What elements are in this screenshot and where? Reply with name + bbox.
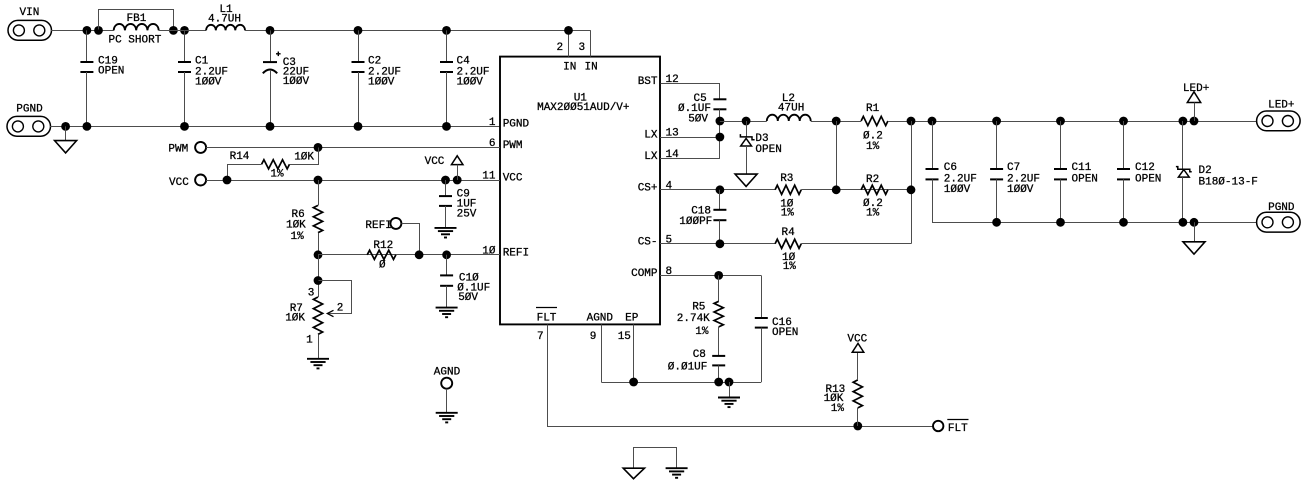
svg-text:2: 2 [556, 42, 563, 54]
wire FB1 to L1 [159, 30, 206, 32]
wire FLT pin 7 [548, 325, 934, 427]
pin 1 PGND label [489, 117, 530, 131]
node R7 top [314, 276, 323, 285]
pin 9 AGND label [587, 313, 614, 343]
node FLT-R13 [853, 422, 862, 431]
pin 12 BST label [638, 74, 679, 88]
resistor R13 [824, 352, 863, 426]
svg-text:1ØK: 1ØK [285, 313, 305, 325]
svg-text:1%: 1% [831, 403, 845, 415]
svg-text:Ø: Ø [379, 260, 386, 272]
svg-text:IN: IN [585, 61, 598, 73]
pin 2 IN [556, 30, 576, 73]
svg-text:C12: C12 [1135, 162, 1155, 174]
ground (AGND earth below C8) [718, 382, 740, 407]
svg-text:6: 6 [489, 138, 496, 150]
power flag LED+ [1183, 83, 1209, 121]
svg-text:1: 1 [306, 335, 313, 347]
svg-text:CS+: CS+ [638, 183, 658, 195]
svg-text:12: 12 [666, 74, 679, 86]
node REFI-R12 [415, 250, 424, 259]
wire bottom output rail [932, 222, 1257, 224]
node VCC-R6 [314, 176, 323, 185]
node C19 bottom [83, 122, 92, 131]
wire LX pins 13/14 [660, 121, 720, 159]
svg-text:C6: C6 [944, 162, 957, 174]
wire R6 to R7 [318, 255, 320, 297]
svg-text:R12: R12 [373, 240, 393, 252]
terminal PWM [168, 142, 206, 155]
node D2 bottom [1179, 218, 1188, 227]
ground (R7 earth) [307, 359, 329, 369]
op-amp U1 MAX20051AUD/V+ body [500, 57, 660, 325]
svg-text:VCC: VCC [503, 173, 523, 185]
ground (right PGND power symbol) [1183, 222, 1205, 254]
connector J LED+ (right) [1257, 100, 1301, 131]
node LX-D3 [742, 117, 751, 126]
svg-text:1%: 1% [783, 261, 797, 273]
svg-text:R3: R3 [780, 173, 793, 185]
pin 5 CS- label [638, 235, 672, 249]
node R6-REFI [314, 250, 323, 259]
node C12 top [1119, 117, 1128, 126]
terminal AGND [434, 367, 461, 413]
svg-text:FB1: FB1 [127, 13, 147, 25]
svg-text:VCC: VCC [169, 177, 189, 189]
ground (tie power symbol) [623, 468, 644, 479]
svg-text:2: 2 [337, 303, 344, 315]
svg-text:1ØØV: 1ØØV [944, 184, 971, 196]
resistor R12 [367, 240, 396, 272]
svg-text:LX: LX [644, 130, 658, 142]
wire L2-R3 vertical [836, 121, 838, 190]
power flag VCC (C9) [425, 156, 463, 180]
terminal FLT [933, 420, 969, 436]
pin 4 CS+ label [638, 181, 673, 195]
wire PGND rail / pin 1 [50, 126, 500, 128]
node C11 top [1056, 117, 1065, 126]
svg-text:PC SHORT: PC SHORT [109, 34, 162, 46]
node C1 top [180, 26, 189, 35]
svg-text:1ØØV: 1ØØV [283, 76, 310, 88]
inductor L2 [767, 93, 811, 121]
capacitor C18 [679, 190, 726, 244]
pin 8 COMP label [631, 266, 672, 280]
node COMP-R5 [714, 271, 723, 280]
capacitor C12 [1117, 121, 1161, 222]
power flag VCC (R13) [847, 333, 867, 352]
node LED+ flag [1190, 117, 1199, 126]
svg-text:9: 9 [590, 331, 597, 343]
svg-text:R14: R14 [230, 151, 250, 163]
svg-text:R5: R5 [692, 302, 705, 314]
node VCC-C9 [441, 176, 450, 185]
terminal VCC [169, 175, 206, 189]
svg-text:C1: C1 [195, 56, 209, 68]
svg-text:PGND: PGND [16, 104, 43, 116]
node D2 top [1179, 117, 1188, 126]
node EP [629, 378, 638, 387]
svg-text:1ØK: 1ØK [294, 152, 314, 164]
capacitor C7 [990, 121, 1040, 222]
svg-text:VCC: VCC [425, 156, 445, 168]
capacitor C4 [440, 30, 490, 126]
svg-text:PWM: PWM [168, 143, 188, 155]
svg-text:OPEN: OPEN [98, 66, 124, 78]
resistor R14 [228, 148, 319, 181]
svg-text:4: 4 [666, 181, 673, 193]
svg-text:FLT: FLT [537, 312, 557, 324]
wire AGND/EP net [601, 324, 761, 382]
node C10 top [442, 250, 451, 259]
svg-text:15: 15 [618, 331, 631, 343]
svg-text:EP: EP [625, 313, 639, 325]
svg-text:1%: 1% [270, 169, 284, 181]
node VIN-FB1 left [94, 26, 103, 35]
capacitor C8 [668, 349, 725, 382]
svg-text:REFI: REFI [503, 247, 529, 259]
svg-text:1%: 1% [695, 326, 709, 338]
svg-text:OPEN: OPEN [755, 144, 781, 156]
wire CS+ pin 4 [660, 189, 911, 191]
pin 3 IN [578, 30, 597, 73]
node FB1 right [169, 26, 178, 35]
svg-text:LED+: LED+ [1183, 83, 1209, 95]
node VIN-C19 [83, 26, 92, 35]
svg-text:5ØV: 5ØV [688, 113, 708, 125]
node PWM-R14 [314, 143, 323, 152]
pin 10 REFI label [482, 246, 529, 260]
wire R2/R4 vertical [911, 121, 913, 244]
capacitor C1 [178, 30, 228, 126]
node VCC-R14 [223, 176, 232, 185]
diode D2 B180-13-F (schottky) [1176, 121, 1258, 222]
svg-text:25V: 25V [457, 208, 477, 220]
svg-text:AGND: AGND [587, 313, 614, 325]
svg-text:COMP: COMP [631, 268, 658, 280]
capacitor C16 [755, 276, 799, 383]
node PGND flag bottom [1190, 218, 1199, 227]
connector J PGND (right) [1257, 202, 1301, 232]
wire REFI line to pin 10 [318, 254, 500, 256]
node C11 bottom [1056, 218, 1065, 227]
svg-text:2.74K: 2.74K [677, 313, 710, 325]
svg-text:PGND: PGND [503, 119, 530, 131]
svg-text:4.7UH: 4.7UH [208, 14, 241, 26]
svg-text:7: 7 [537, 331, 544, 343]
node R2-R4 [907, 185, 916, 194]
wire ground tie bridge [634, 448, 677, 469]
pin 13 LX label [644, 128, 678, 142]
svg-text:FLT: FLT [948, 423, 968, 435]
svg-text:VIN: VIN [20, 7, 40, 19]
svg-text:Ø.Ø1UF: Ø.Ø1UF [668, 361, 708, 373]
node C3 top [266, 26, 275, 35]
capacitor C10 [440, 255, 490, 308]
svg-text:R2: R2 [866, 174, 879, 186]
svg-text:LED+: LED+ [1268, 100, 1294, 112]
svg-text:OPEN: OPEN [1135, 174, 1161, 186]
node C4 top [442, 26, 451, 35]
svg-text:R4: R4 [782, 227, 796, 239]
resistor R4 [775, 227, 801, 273]
svg-text:5ØV: 5ØV [458, 292, 478, 304]
capacitor C6 [926, 121, 977, 222]
svg-text:R1: R1 [866, 103, 880, 115]
ground (C9 earth) [435, 228, 457, 238]
capacitor C3 (polarized) [263, 30, 310, 126]
node C7 bottom [992, 218, 1001, 227]
resistor R1 [861, 103, 888, 153]
resistor R7 (pot) [285, 288, 322, 359]
node CS+-C18 [716, 185, 725, 194]
ground (PGND power symbol) [55, 126, 77, 152]
svg-text:3: 3 [578, 42, 585, 54]
ferrite bead FB1 [99, 10, 174, 47]
node R1-R2 vertical top [907, 117, 916, 126]
capacitor C5 [678, 93, 726, 125]
svg-text:1ØØV: 1ØØV [457, 77, 484, 89]
node PGND-gnd [61, 122, 70, 131]
node LX-C5 [716, 117, 725, 126]
wire PWM to pin 6 [206, 147, 500, 149]
svg-text:3: 3 [308, 288, 315, 300]
svg-text:8: 8 [666, 266, 673, 278]
pin 7 FLT label [536, 308, 557, 343]
node C1 bottom [180, 122, 189, 131]
node C8 bottom [714, 378, 723, 387]
node C3 bottom [266, 122, 275, 131]
svg-text:1%: 1% [866, 141, 880, 153]
svg-text:C2: C2 [368, 56, 381, 68]
wire VIN to node [51, 30, 114, 32]
svg-text:1ØØV: 1ØØV [195, 77, 222, 89]
svg-text:C4: C4 [457, 56, 471, 68]
ground (AGND earth) [436, 413, 458, 423]
transistor-like pot R7 wiper [319, 281, 352, 317]
svg-text:AGND: AGND [434, 367, 461, 379]
svg-text:14: 14 [666, 149, 680, 161]
node C2 bottom [354, 122, 363, 131]
capacitor C19 [80, 30, 124, 126]
svg-text:1ØØPF: 1ØØPF [679, 216, 712, 228]
pin 15 EP label [618, 313, 639, 343]
svg-text:LX: LX [644, 151, 658, 163]
svg-text:C7: C7 [1007, 162, 1020, 174]
svg-text:BST: BST [638, 76, 658, 88]
svg-text:5: 5 [666, 235, 673, 247]
wire R1 to LED+ rail [888, 121, 1257, 123]
wire L2 to R1 [811, 121, 861, 123]
wire LX to L2 [720, 121, 767, 123]
connector J PGND (left) [7, 104, 51, 137]
svg-text:1ØØV: 1ØØV [1007, 184, 1034, 196]
svg-text:CS-: CS- [638, 237, 658, 249]
resistor R6 [286, 180, 323, 255]
node C4 bottom [442, 122, 451, 131]
svg-text:IN: IN [563, 61, 576, 73]
wire L1 to pins 2/3 [245, 30, 591, 32]
svg-text:1ØK: 1ØK [286, 220, 306, 232]
svg-text:C8: C8 [693, 349, 706, 361]
terminal REFI [365, 218, 401, 232]
wire REFI terminal down [402, 224, 420, 255]
ground (D3 power symbol) [735, 174, 757, 186]
node pin 13 [716, 133, 725, 142]
svg-text:REFI: REFI [365, 220, 391, 232]
svg-text:1: 1 [489, 117, 496, 129]
svg-text:1Ø: 1Ø [482, 246, 496, 258]
node C7 top [992, 117, 1001, 126]
svg-text:1ØØV: 1ØØV [368, 77, 395, 89]
svg-text:D2: D2 [1199, 165, 1212, 177]
wire CS- pin 5 [660, 243, 911, 245]
svg-text:PWM: PWM [503, 140, 523, 152]
svg-text:OPEN: OPEN [1072, 174, 1098, 186]
svg-text:C11: C11 [1072, 162, 1092, 174]
diode D3 (zener, OPEN) [740, 121, 781, 174]
pin 14 LX label [644, 149, 679, 163]
ground (tie earth symbol) [666, 468, 688, 478]
svg-text:B18Ø-13-F: B18Ø-13-F [1199, 176, 1258, 188]
svg-text:OPEN: OPEN [772, 327, 798, 339]
inductor L1 [206, 4, 245, 30]
capacitor C9 [439, 180, 477, 228]
svg-text:VCC: VCC [847, 333, 867, 345]
svg-text:1%: 1% [866, 208, 880, 220]
svg-text:1%: 1% [781, 208, 795, 220]
wire BST pin 12 [661, 84, 720, 100]
node VCC-flag [453, 176, 462, 185]
node C2 top [354, 26, 363, 35]
svg-text:MAX2ØØ51AUD/V+: MAX2ØØ51AUD/V+ [537, 102, 629, 114]
resistor R5 [677, 275, 724, 356]
svg-text:47UH: 47UH [778, 103, 804, 115]
node R3-R2 [832, 185, 841, 194]
wire VCC to pin 11 [206, 180, 500, 182]
svg-text:1%: 1% [290, 231, 304, 243]
node C12 bottom [1119, 218, 1128, 227]
resistor R3 [775, 173, 801, 220]
node pins 2/3 [564, 26, 573, 35]
pin 6 PWM label [489, 138, 523, 152]
capacitor C2 [352, 30, 402, 126]
node L2-R3 vertical top [832, 117, 841, 126]
pin 11 VCC label [482, 171, 523, 185]
node CS--C18 [716, 239, 725, 248]
ground (C10 earth) [436, 308, 458, 318]
connector J VIN [8, 7, 52, 40]
node C6 top [928, 117, 937, 126]
capacitor C11 [1054, 121, 1098, 222]
node gnd stem [725, 378, 734, 387]
wire COMP pin 8 [660, 275, 761, 277]
resistor R2 [861, 174, 888, 220]
